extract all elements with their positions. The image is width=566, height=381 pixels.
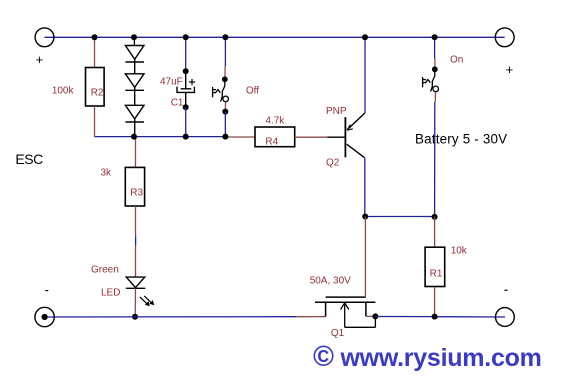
svg-text:On: On: [450, 55, 463, 66]
node top rail junctions: [92, 34, 438, 40]
svg-text:+: +: [506, 62, 514, 77]
node Q1 source: [372, 313, 378, 319]
svg-text:Q2: Q2: [326, 157, 340, 168]
diode D2: [125, 74, 144, 106]
node R1 bottom: [432, 314, 438, 320]
svg-text:R1: R1: [430, 268, 443, 279]
wire Off switch bottom: [224, 102, 226, 110]
node collector rail left: [362, 214, 368, 220]
wire top rail: [45, 36, 505, 38]
terminal + top-left: [35, 28, 54, 47]
svg-text:10k: 10k: [451, 246, 468, 257]
wire C1 top lead: [185, 37, 187, 71]
wire R2 top lead: [94, 37, 96, 67]
node mid rail junctions: [131, 134, 228, 140]
svg-text:R4: R4: [265, 137, 278, 148]
wire On switch top: [434, 37, 436, 58]
diode D3: [125, 105, 144, 136]
svg-text:© www.rysium.com: © www.rysium.com: [313, 341, 542, 373]
resistor R3: [125, 167, 144, 206]
wire R2 bottom lead: [94, 106, 96, 137]
resistor R2: [86, 68, 105, 107]
LED arrows: [140, 296, 153, 305]
wire bottom rail right: [375, 316, 434, 318]
svg-text:Q1: Q1: [331, 328, 345, 339]
wire bottom rail left: [45, 316, 296, 318]
wire R3 to LED: [135, 206, 137, 236]
node collector rail right: [432, 214, 438, 220]
wire C1 bottom lead: [185, 107, 187, 136]
capacitor C1: [177, 71, 194, 107]
svg-text:50A, 30V: 50A, 30V: [310, 276, 351, 287]
svg-text:C1: C1: [171, 98, 184, 109]
svg-text:Off: Off: [246, 86, 259, 97]
switch S1 Off: [213, 82, 229, 102]
wire to R4: [225, 136, 255, 138]
wire collector rail: [365, 216, 434, 218]
svg-text:ESC: ESC: [15, 151, 43, 167]
wire Off switch top: [224, 37, 226, 66]
terminal - bottom-left: [35, 307, 54, 326]
svg-text:Green: Green: [91, 265, 119, 276]
svg-text:+: +: [36, 52, 44, 67]
svg-text:PNP: PNP: [326, 106, 347, 117]
wire Q1 gate up: [364, 217, 366, 298]
wire LED bottom lead: [134, 288, 136, 317]
wire mid rail: [95, 136, 226, 138]
svg-text:R3: R3: [130, 188, 143, 199]
svg-text:R2: R2: [91, 88, 104, 99]
transistor Q2 PNP: [327, 113, 365, 158]
node C1 top: [183, 68, 189, 74]
svg-text:3k: 3k: [101, 168, 113, 179]
resistor R4: [255, 127, 295, 147]
diode D1: [125, 46, 144, 74]
svg-text:100k: 100k: [52, 86, 75, 97]
svg-text:4.7k: 4.7k: [265, 116, 285, 127]
wire On switch bottom: [434, 92, 436, 102]
svg-text:Battery 5 - 30V: Battery 5 - 30V: [415, 132, 507, 147]
node C1 bottom: [183, 104, 189, 110]
wire diode chain link: [133, 37, 135, 45]
wire Q1 source to rail: [366, 315, 376, 317]
node Off bottom: [222, 109, 228, 115]
node LED bottom: [132, 314, 138, 320]
mosfet Q1: [315, 297, 375, 327]
terminal + top-right: [495, 28, 514, 47]
switch S2 On: [423, 72, 439, 92]
wire R1 bottom lead: [434, 287, 436, 317]
wire R4 to Q2 base: [295, 136, 328, 138]
wire R3 top lead: [135, 137, 137, 168]
resistor R1: [425, 247, 445, 286]
wire R1 top lead: [434, 217, 436, 248]
svg-text:LED: LED: [101, 288, 120, 299]
LED D4 green: [126, 277, 145, 288]
terminal - bottom-right: [496, 308, 515, 327]
wire Q2 collector down: [364, 158, 366, 217]
svg-text:47uF: 47uF: [160, 76, 183, 87]
wire Q2 emitter up: [364, 37, 366, 113]
